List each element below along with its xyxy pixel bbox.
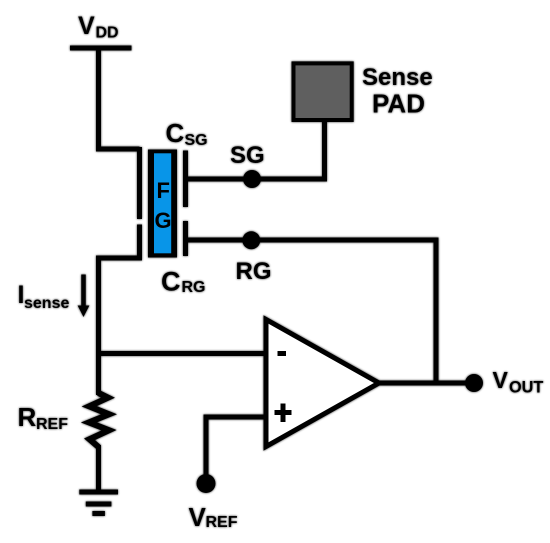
svg-text:sense: sense xyxy=(24,295,69,312)
wire VREF down xyxy=(204,415,209,481)
svg-text:V: V xyxy=(189,502,207,532)
svg-text:PAD: PAD xyxy=(372,89,425,119)
svg-text:V: V xyxy=(78,12,95,40)
svg-text:R: R xyxy=(18,402,37,432)
wire source down to node A xyxy=(96,256,101,396)
svg-text:V: V xyxy=(493,367,509,393)
wire VREF to non-inverting input xyxy=(206,415,266,420)
op-amp U1 xyxy=(266,320,379,447)
svg-text:RG: RG xyxy=(182,279,206,296)
node VOUT dot xyxy=(465,374,483,392)
node RG dot xyxy=(242,231,260,249)
svg-text:RG: RG xyxy=(236,258,272,285)
wire op-amp output xyxy=(377,381,474,386)
svg-text:DD: DD xyxy=(96,25,119,42)
transistor Q1 channel (drain segment) xyxy=(137,147,142,219)
svg-text:G: G xyxy=(155,208,172,233)
node VREF dot xyxy=(197,474,216,493)
Sense PAD square xyxy=(294,63,352,120)
svg-text:C: C xyxy=(161,267,181,297)
current arrow Isense xyxy=(81,275,86,308)
svg-text:SG: SG xyxy=(185,132,208,149)
transistor Q1 channel (source segment) xyxy=(137,225,142,259)
svg-text:C: C xyxy=(166,118,185,148)
capacitor CSG gate bar xyxy=(183,151,188,208)
resistor RREF xyxy=(89,393,109,447)
wire drain horizontal xyxy=(96,147,140,152)
wire Sense PAD down xyxy=(322,120,327,182)
op-amp plus sign xyxy=(275,404,292,423)
ground xyxy=(79,490,118,495)
node SG dot xyxy=(243,170,261,188)
floating gate FG (blue) xyxy=(148,150,177,258)
svg-text:F: F xyxy=(157,178,170,203)
svg-text:Sense: Sense xyxy=(362,64,433,91)
wire feedback down xyxy=(434,238,439,384)
wire source horizontal xyxy=(99,256,143,261)
VDD supply bar xyxy=(70,46,132,51)
svg-text:OUT: OUT xyxy=(509,379,543,397)
op-amp minus sign xyxy=(278,351,287,356)
wire resistor to ground xyxy=(96,445,101,492)
svg-text:REF: REF xyxy=(36,416,68,433)
svg-text:REF: REF xyxy=(206,514,238,531)
wire SG xyxy=(186,177,325,182)
wire to inverting input xyxy=(99,351,267,356)
wire VDD down xyxy=(96,46,101,152)
wire RG xyxy=(186,238,437,243)
capacitor CRG gate bar xyxy=(183,221,188,256)
svg-text:SG: SG xyxy=(230,142,265,169)
